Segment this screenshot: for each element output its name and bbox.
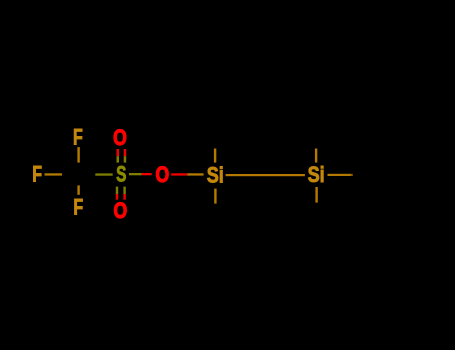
svg-text:O: O [113,199,127,223]
svg-text:Si: Si [308,164,325,188]
svg-text:O: O [113,126,127,150]
svg-text:F: F [32,163,42,187]
svg-text:F: F [73,196,83,220]
svg-text:F: F [73,126,83,150]
svg-text:O: O [155,163,169,187]
svg-text:Si: Si [207,164,224,188]
svg-text:S: S [116,163,126,187]
